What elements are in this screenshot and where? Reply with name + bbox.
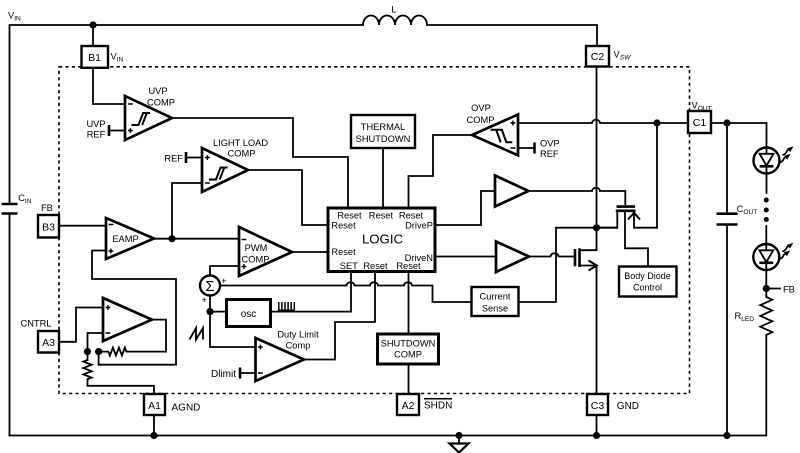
buffer driver2 (DriveN) xyxy=(496,242,529,273)
node junction FB xyxy=(763,285,770,292)
pin minus OVP xyxy=(511,147,516,149)
svg-text:FB: FB xyxy=(41,203,53,213)
wire C3 to ground rail xyxy=(596,415,598,436)
node junction VIN/B1 xyxy=(89,21,96,28)
ellipsis dots LED string xyxy=(764,198,769,223)
pin plus LIGHT LOAD xyxy=(205,155,210,160)
svg-text:C3: C3 xyxy=(591,400,605,412)
label UVP REF xyxy=(86,119,105,140)
wire PMOS bulk to body diode control xyxy=(625,211,648,267)
LED D1 xyxy=(754,148,780,174)
inductor L xyxy=(363,16,427,26)
wire LIGHT LOAD output to LOGIC xyxy=(248,170,328,225)
op-amp LIGHT LOAD COMP xyxy=(202,148,248,192)
light arrows D1 xyxy=(778,144,795,164)
pin plus EAMP xyxy=(109,249,114,254)
wire FB stub xyxy=(766,288,780,290)
pin minus duty limit xyxy=(258,372,263,374)
wire B3 to EAMP minus xyxy=(59,225,106,227)
block Current Sense xyxy=(472,287,519,316)
LED D2 xyxy=(753,244,779,270)
wire C1 to LED string xyxy=(711,123,767,148)
label SHDN with overline xyxy=(424,399,452,412)
svg-text:COMP: COMP xyxy=(467,115,495,125)
block SHUTDOWN COMP xyxy=(378,334,439,364)
pin plus PWM xyxy=(242,264,247,269)
pin minus buffer xyxy=(106,332,111,334)
svg-text:A2: A2 xyxy=(402,400,415,412)
wire buffer feedback with resistor xyxy=(126,320,166,352)
svg-text:SHUTDOWN: SHUTDOWN xyxy=(356,134,411,144)
svg-text:Dlimit: Dlimit xyxy=(211,369,236,380)
pin A1 xyxy=(144,394,165,415)
pin C3 xyxy=(587,394,608,415)
buffer driver1 (DriveP) xyxy=(495,176,529,207)
pin plus OVP xyxy=(511,121,516,126)
block OSC xyxy=(227,300,271,327)
wire OVP plus to VOUT node (hops VSW) xyxy=(518,120,688,123)
svg-text:OVP: OVP xyxy=(540,139,560,149)
wire NMOS source to C3 xyxy=(596,266,598,395)
pulse comb glyph xyxy=(278,302,295,310)
summer sigma circle xyxy=(200,276,220,296)
svg-text:Reset: Reset xyxy=(369,210,394,220)
wire summer to current sense xyxy=(220,282,472,302)
svg-text:GND: GND xyxy=(617,401,639,412)
svg-text:Reset: Reset xyxy=(337,210,362,220)
node junction A1 ground xyxy=(150,432,157,439)
op-amp EAMP xyxy=(106,218,154,259)
resistor RLED xyxy=(760,297,772,335)
svg-text:COMP: COMP xyxy=(228,149,256,159)
op-amp PWM COMP xyxy=(239,227,292,276)
resistor feedback horizontal xyxy=(99,348,127,356)
pin B1 xyxy=(82,46,109,68)
terminal Dlimit xyxy=(240,368,256,379)
wire LOGIC SET leg xyxy=(350,272,352,312)
svg-text:PWM: PWM xyxy=(245,243,268,253)
terminal UVP REF xyxy=(109,125,125,136)
svg-text:UVP: UVP xyxy=(148,86,167,96)
terminal REF xyxy=(186,152,202,163)
svg-text:Reset: Reset xyxy=(399,210,424,220)
svg-text:Reset: Reset xyxy=(331,220,356,230)
pin A2 xyxy=(397,394,419,415)
wire VIN rail top xyxy=(10,25,364,203)
svg-text:B1: B1 xyxy=(88,52,101,64)
wire LOGIC DriveP to driver1 xyxy=(435,191,495,225)
svg-text:LIGHT LOAD: LIGHT LOAD xyxy=(213,138,268,148)
svg-text:COMP: COMP xyxy=(242,255,270,265)
light arrows D2 xyxy=(778,241,795,261)
svg-text:osc: osc xyxy=(241,309,257,320)
wire PWM plus from summer xyxy=(210,266,239,276)
svg-text:CNTRL: CNTRL xyxy=(21,319,52,329)
wire EAMP output to PWM xyxy=(154,238,239,240)
wire duty limit output to LOGIC xyxy=(304,272,375,360)
capacitor COUT xyxy=(717,214,738,225)
ground symbol xyxy=(450,436,469,453)
svg-text:DriveP: DriveP xyxy=(405,221,433,231)
node junction COUT ground xyxy=(723,432,730,439)
wire driver2 out to NMOS gate (hops sense line) xyxy=(529,253,574,256)
block THERMAL SHUTDOWN xyxy=(351,115,415,148)
wire sense tap to current sense xyxy=(519,228,618,302)
svg-text:UVP: UVP xyxy=(86,119,105,129)
resistor CNTRL vertical xyxy=(83,360,91,379)
node junction VSW PMOS source xyxy=(593,224,600,231)
svg-text:C1: C1 xyxy=(693,117,707,129)
svg-text:FB: FB xyxy=(783,285,795,295)
wire PWM output to LOGIC xyxy=(292,251,328,253)
wire summer bottom to duty limit xyxy=(210,296,256,348)
transistor Q1 PMOS rectifier xyxy=(597,207,658,228)
pin plus buffer xyxy=(106,305,111,310)
wire top right to C2 xyxy=(427,25,597,46)
svg-text:OVP: OVP xyxy=(471,103,491,113)
wire node to vertical resistor xyxy=(87,352,89,360)
node junction C3 ground xyxy=(593,432,600,439)
svg-text:Control: Control xyxy=(633,283,662,293)
block Body Diode Control xyxy=(619,267,677,297)
hysteresis glyph OVP xyxy=(491,130,513,143)
wire bottom ground rail xyxy=(10,435,766,437)
wire LED2 to FB node xyxy=(765,270,767,297)
svg-text:SHUTDOWN: SHUTDOWN xyxy=(381,339,436,349)
wire driver1 out to PMOS gate (hops VSW) xyxy=(529,188,626,205)
svg-text:SET: SET xyxy=(340,261,358,271)
pin plus duty limit xyxy=(258,345,263,350)
wire LOGIC reset3 leg to shutdown comp xyxy=(408,272,410,335)
pin A3 xyxy=(38,331,59,353)
svg-text:L: L xyxy=(391,5,396,15)
wire A1 to ground rail xyxy=(153,415,155,436)
op-amp OVP COMP (points left) xyxy=(472,115,518,156)
capacitor CIN xyxy=(2,204,18,214)
wire thermal shutdown to LOGIC xyxy=(382,148,384,208)
block LOGIC xyxy=(328,208,435,272)
svg-text:LOGIC: LOGIC xyxy=(362,232,404,247)
svg-text:REF: REF xyxy=(164,154,183,164)
svg-text:REF: REF xyxy=(87,130,106,140)
svg-text:EAMP: EAMP xyxy=(112,234,138,244)
svg-text:Σ: Σ xyxy=(206,279,215,295)
wire UVP output to LOGIC xyxy=(172,118,348,208)
pin C2 xyxy=(586,46,609,67)
wire LOGIC DriveN to driver2 xyxy=(435,256,496,258)
pin minus PWM xyxy=(242,239,247,241)
node junction COUT tap xyxy=(723,119,730,126)
wire OVP output to LOGIC xyxy=(409,135,473,208)
svg-text:SHDN: SHDN xyxy=(424,401,452,412)
svg-text:Sense: Sense xyxy=(482,304,508,314)
wire COUT bottom to ground rail xyxy=(726,225,728,436)
wire B1 top stub xyxy=(92,25,94,46)
node junction VOUT xyxy=(653,119,660,126)
wire EAMP out up to LIGHT LOAD minus xyxy=(172,183,202,239)
wire PMOS drain to VOUT node xyxy=(656,123,658,228)
svg-text:A1: A1 xyxy=(148,400,161,412)
op-amp Duty Limit Comp xyxy=(256,338,305,381)
pin B3 xyxy=(38,215,59,238)
label OVP REF xyxy=(540,139,560,160)
svg-text:Body Diode: Body Diode xyxy=(624,271,671,281)
wire shutdown comp to A2 xyxy=(408,364,410,394)
pin minus EAMP xyxy=(109,224,114,226)
svg-text:Reset: Reset xyxy=(363,261,388,271)
svg-text:COMP: COMP xyxy=(147,98,175,108)
op-amp UVP COMP xyxy=(125,96,172,140)
op-amp CNTRL buffer xyxy=(103,298,152,341)
sawtooth glyph xyxy=(190,328,204,340)
wire A3 to buffer plus xyxy=(59,308,103,342)
wire COUT top xyxy=(726,123,728,213)
svg-text:Reset: Reset xyxy=(396,261,421,271)
pin minus LIGHT LOAD xyxy=(205,182,210,184)
wire RLED to ground rail xyxy=(765,335,768,436)
wire to OSC xyxy=(210,311,227,313)
wire EAMP plus feedback xyxy=(92,251,176,365)
wire resistor to A1 xyxy=(88,379,155,394)
svg-text:AGND: AGND xyxy=(172,403,201,414)
svg-text:THERMAL: THERMAL xyxy=(361,122,405,132)
node junction EAMP output xyxy=(168,235,175,242)
wire dots to LED2 xyxy=(765,226,767,244)
wire VIN rail left lower xyxy=(9,215,11,436)
wire buffer minus to node xyxy=(88,333,104,352)
node dot2 CNTRL xyxy=(95,348,102,355)
pin C1 xyxy=(688,111,711,133)
svg-text:COMP: COMP xyxy=(394,350,422,360)
hysteresis glyph UVP xyxy=(132,113,151,125)
transistor Q2 NMOS switch xyxy=(575,248,597,272)
svg-text:REF: REF xyxy=(540,149,559,159)
pin plus UVP xyxy=(128,128,133,133)
svg-text:A3: A3 xyxy=(42,337,55,349)
node junction osc tap xyxy=(206,308,213,315)
hysteresis glyph LIGHT LOAD xyxy=(209,168,228,180)
svg-text:B3: B3 xyxy=(42,222,55,234)
svg-text:C2: C2 xyxy=(591,51,605,63)
svg-text:Duty Limit: Duty Limit xyxy=(277,330,319,340)
svg-text:Current: Current xyxy=(479,292,510,302)
IC boundary dashed box xyxy=(59,67,690,394)
wire OSC output to LOGIC SET xyxy=(271,311,352,313)
wire LED1 to dots xyxy=(766,174,768,194)
svg-text:+: + xyxy=(202,295,208,306)
node dot1 CNTRL xyxy=(84,348,91,355)
wire B1 to UVP comp xyxy=(93,68,125,104)
terminal OVP REF xyxy=(518,143,535,154)
svg-text:Reset: Reset xyxy=(331,247,356,257)
node junction ground rail xyxy=(455,432,462,439)
pin minus UVP xyxy=(128,103,133,105)
svg-text:Comp: Comp xyxy=(286,341,311,351)
wire VSW vertical C2 to NMOS drain xyxy=(596,67,598,250)
